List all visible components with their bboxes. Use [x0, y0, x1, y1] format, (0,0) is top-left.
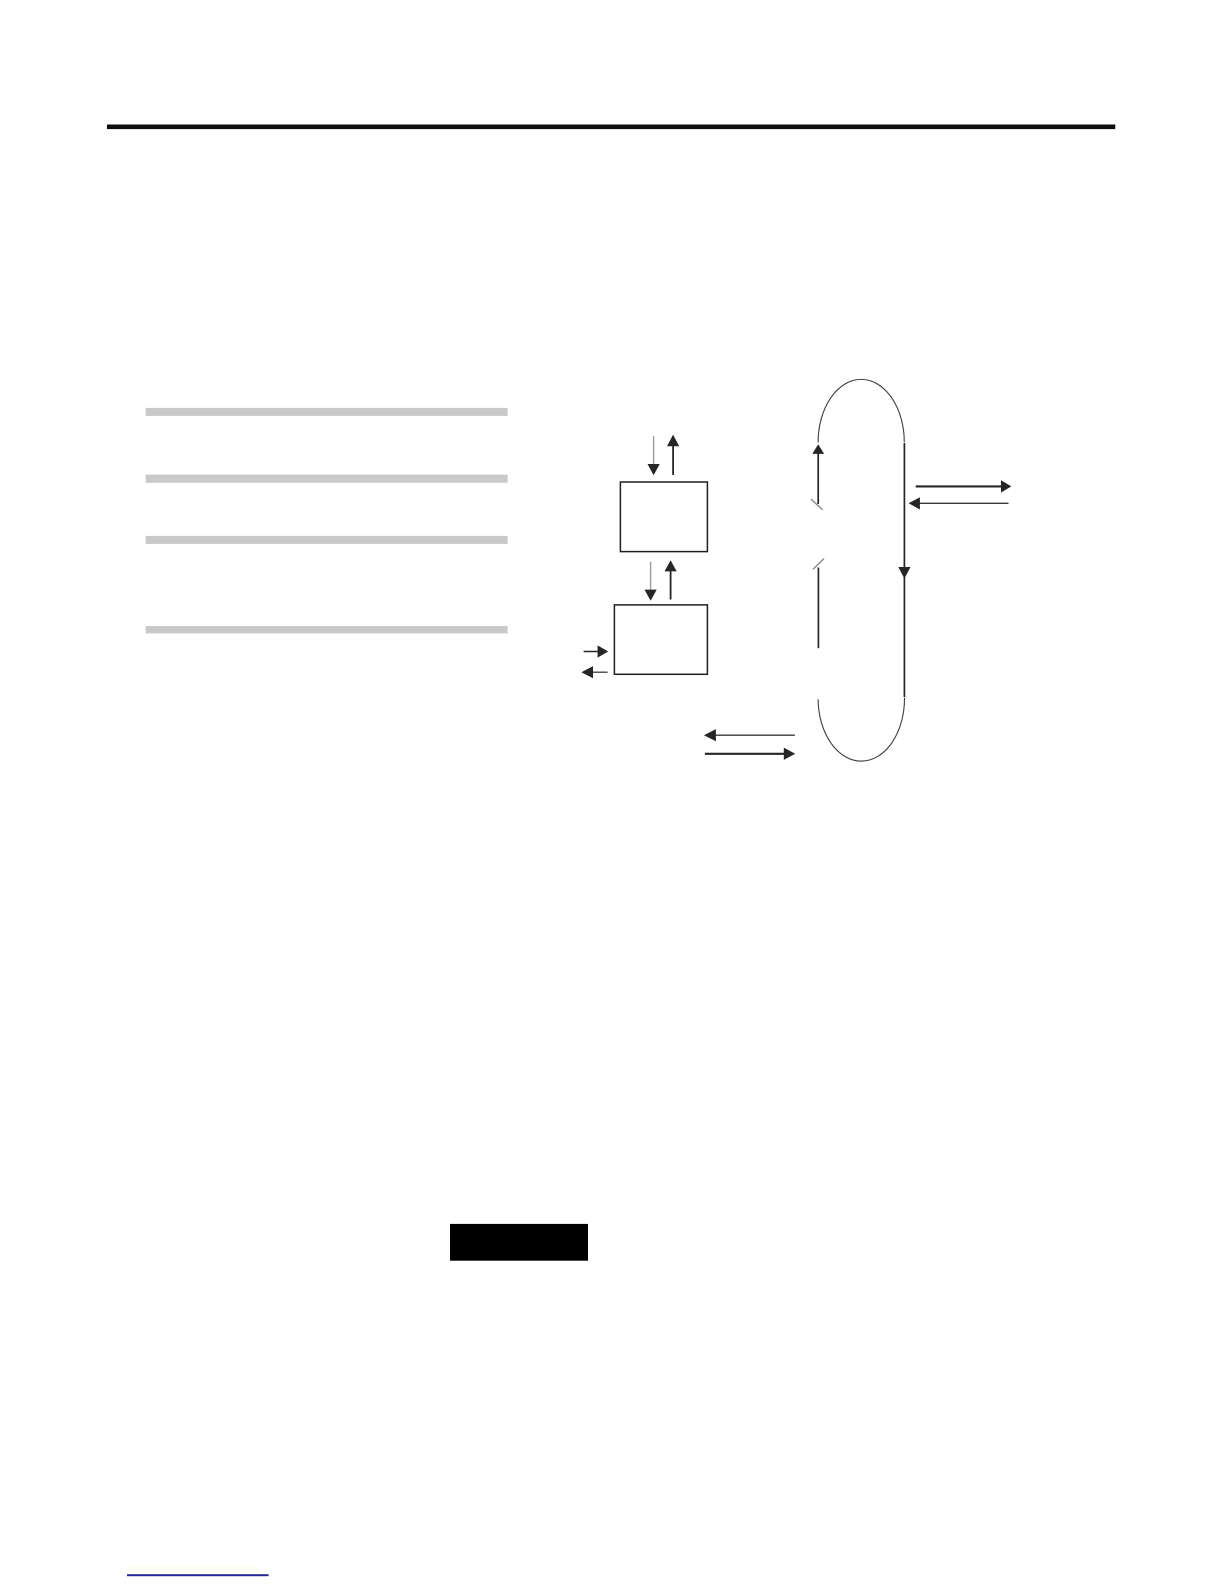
left arrow entering loop (from the right): [909, 497, 1009, 509]
faint highlight above footnote rule: [128, 1567, 260, 1573]
up arrow out of box 2: [665, 560, 677, 599]
redacted text bar 2: [146, 475, 508, 483]
break mark upper (slash): [811, 499, 823, 510]
break mark lower (slash): [813, 559, 824, 570]
box 2 (lower process box): [614, 605, 707, 674]
box 1 (upper process box): [620, 482, 707, 552]
redacted text bar 1: [146, 408, 508, 416]
loop bottom arc: [818, 698, 904, 761]
top header rule: [107, 125, 1115, 130]
footnote blue rule: [127, 1574, 269, 1576]
loop top arc: [818, 379, 904, 442]
right arrow at bottom of loop: [705, 748, 795, 760]
redacted text bar 4: [146, 626, 508, 633]
right arrow into left side of box 2: [584, 645, 609, 657]
redacted text bar 3: [146, 536, 508, 544]
down arrow into box 2 (gray shaft): [645, 562, 657, 601]
loop left side lower segment: [817, 568, 819, 649]
right arrow leaving loop (to the right): [916, 480, 1012, 492]
down arrow into box 1 (gray shaft): [648, 436, 660, 475]
loop left side up arrow: [812, 444, 824, 504]
up arrow out of box 1: [667, 435, 679, 475]
loop right side line with down arrowhead: [898, 443, 910, 697]
left arrow out of left side of box 2: [581, 666, 607, 678]
left arrow at bottom of loop: [704, 729, 795, 741]
black redaction rectangle: [450, 1224, 588, 1261]
